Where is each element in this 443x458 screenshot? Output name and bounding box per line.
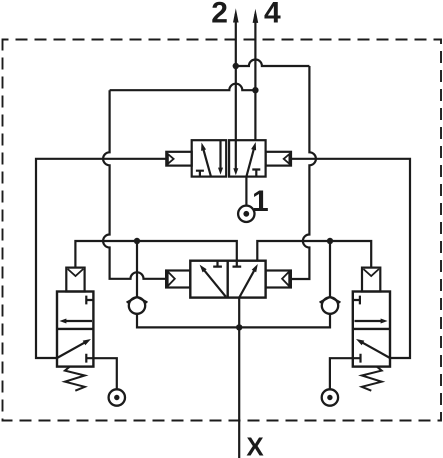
- V4 divider: [353, 328, 390, 330]
- valve U1 body right box: [229, 140, 266, 176]
- U1 right box diagonal arrow: [246, 147, 254, 176]
- V4 exhaust circle: [322, 389, 338, 405]
- V3 bottom box blocked port: [86, 354, 93, 363]
- V3 exhaust wire: [93, 358, 116, 389]
- wire: U1 left pilot to left side rail, down to valve V3: [36, 159, 166, 358]
- V3 bottom box diagonal arrow: [57, 342, 86, 358]
- port 1 line: [245, 177, 247, 206]
- wire: left drop to port4 junction, hop over port2: [110, 84, 256, 90]
- V3 top box left arrow: [65, 320, 92, 322]
- check valve L ball: [129, 297, 145, 313]
- check valve L seat: [127, 297, 148, 303]
- V4 pilot box: [362, 268, 380, 292]
- U2 left pilot box: [166, 271, 190, 288]
- U2 right box blocked port T: [233, 261, 242, 267]
- wire: left vertical drop x=109.6 with hops, to middle-valve left pilot, hop over check line: [103, 90, 166, 279]
- U1 right pilot triangle: [284, 154, 290, 164]
- V3 pilot triangle: [68, 269, 84, 276]
- V4 top box blocked port: [353, 296, 360, 305]
- U2 left box diagonal arrow: [204, 270, 226, 297]
- U2 right pilot box: [266, 271, 291, 288]
- valve U1 body left box: [192, 140, 227, 176]
- V4 top box right arrow: [355, 320, 382, 322]
- U1 left box blocked port T: [196, 171, 204, 177]
- U2 right pilot triangle: [282, 272, 289, 287]
- wire: U1 right pilot to right side rail, down to valve V4: [291, 159, 410, 358]
- U2 left pilot triangle: [168, 272, 175, 287]
- wire: right vertical drop x=309 with hops, to middle-valve right pilot: [291, 66, 316, 279]
- V4 bottom box blocked port: [353, 354, 361, 363]
- valve V3 body: [57, 292, 93, 367]
- wire: right net y241 (V2 top-right port, check R, V4 pilot): [257, 241, 371, 268]
- V3 top box blocked port: [86, 296, 93, 305]
- check valve R seat: [320, 297, 341, 303]
- U1 right pilot box: [266, 152, 291, 166]
- wire: port2 junction to right drop, hop over port4: [236, 60, 310, 66]
- U1 left pilot box: [166, 152, 191, 166]
- V4 bottom box diagonal arrow: [361, 342, 390, 358]
- junction dot on port 2: [233, 63, 239, 69]
- svg-text:1: 1: [252, 185, 269, 218]
- port 1 source circle: [238, 206, 254, 222]
- svg-text:X: X: [246, 432, 264, 458]
- V3 exhaust circle: [109, 389, 125, 405]
- U1 left box down arrow: [219, 140, 221, 168]
- port 2 line: [235, 14, 237, 140]
- U2 left box blocked port T: [213, 261, 222, 267]
- V3 pilot box: [66, 268, 84, 292]
- U2 divider: [226, 261, 228, 298]
- V4 spring: [362, 367, 382, 391]
- U1 left box diagonal arrow: [203, 148, 211, 176]
- valve V4 body: [353, 292, 390, 367]
- U2 right box diagonal arrow: [239, 270, 254, 298]
- junction dot check R: [327, 238, 333, 244]
- check valve R ball: [322, 297, 338, 313]
- svg-text:2: 2: [211, 0, 228, 30]
- check valve R bottom wire: [239, 314, 330, 328]
- junction dot check L: [134, 238, 140, 244]
- valve U2 body: [190, 261, 265, 298]
- svg-text:4: 4: [264, 0, 281, 30]
- check valve R line from junction: [329, 241, 331, 297]
- check valve L bottom wire: [137, 314, 239, 328]
- U1 right box down arrow: [235, 140, 237, 169]
- check valve L line from junction: [136, 241, 138, 297]
- port X line: [238, 298, 240, 458]
- V3 divider: [57, 328, 93, 330]
- V4 exhaust wire: [330, 358, 353, 389]
- port 4 line: [254, 14, 256, 140]
- V3 spring: [65, 367, 85, 391]
- junction dot X: [236, 324, 242, 330]
- V4 pilot triangle: [363, 269, 379, 276]
- junction dot on port 4: [252, 87, 258, 93]
- U1 left pilot triangle: [168, 154, 174, 164]
- wire: left net y241 (V3 pilot, check L, V2 top-left port): [75, 241, 236, 268]
- U1 right box blocked port T: [252, 170, 260, 177]
